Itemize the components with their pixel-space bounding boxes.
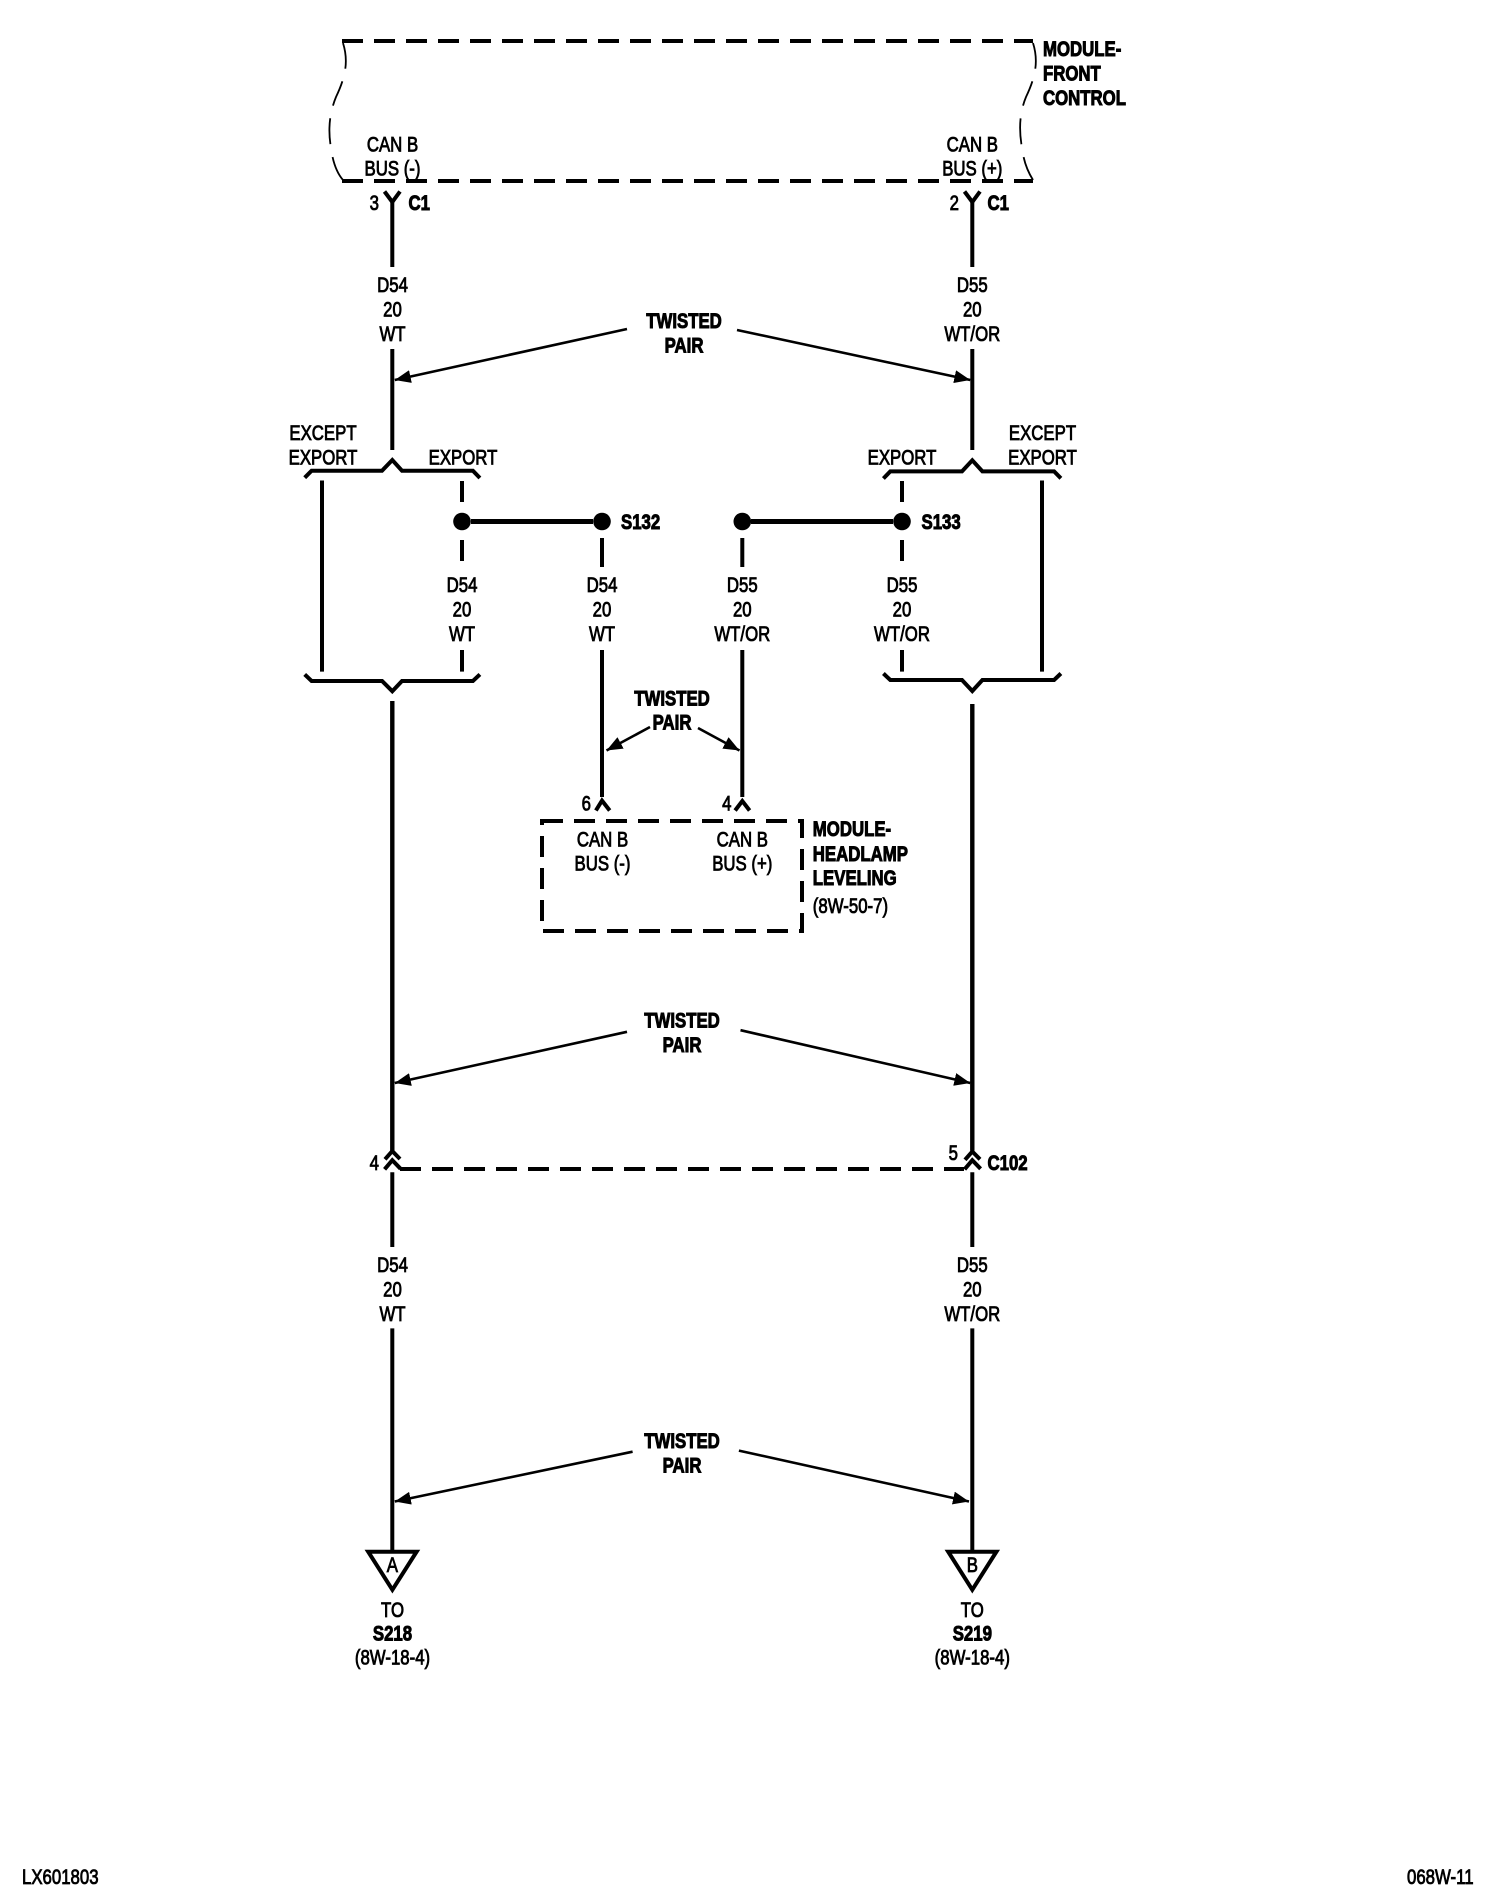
svg-text:WT/OR: WT/OR [874, 623, 930, 646]
svg-text:2: 2 [950, 192, 959, 215]
svg-text:20: 20 [383, 299, 402, 322]
svg-text:20: 20 [893, 599, 912, 622]
wire export branch right (dashed, lower) [900, 650, 904, 672]
svg-text:HEADLAMP: HEADLAMP [813, 843, 908, 866]
wire from S132 down to headlamp pin 6 [600, 650, 604, 797]
arrow to headlamp right wire [698, 728, 740, 751]
svg-text:20: 20 [383, 1279, 402, 1302]
svg-text:C102: C102 [988, 1152, 1028, 1175]
svg-text:MODULE-: MODULE- [1043, 38, 1121, 61]
splice S133 [893, 511, 961, 534]
svg-text:D54: D54 [377, 274, 408, 297]
wire export branch right (dashed, below dot) [900, 540, 904, 561]
svg-text:TO: TO [381, 1599, 404, 1622]
wire except-export branch left (solid) [320, 481, 324, 672]
svg-text:WT/OR: WT/OR [714, 623, 770, 646]
svg-text:TWISTED: TWISTED [646, 310, 722, 333]
svg-text:TO: TO [961, 1599, 984, 1622]
net label CAN B BUS (+) right [942, 134, 1002, 181]
svg-text:PAIR: PAIR [663, 1455, 702, 1478]
wire export branch left (dashed, below dot) [460, 540, 464, 561]
svg-text:20: 20 [963, 299, 982, 322]
svg-text:PAIR: PAIR [665, 335, 704, 358]
arrow to right wire (mid twisted pair) [741, 1030, 971, 1083]
arrow to right wire (bottom twisted pair) [739, 1451, 969, 1502]
svg-text:PAIR: PAIR [653, 712, 692, 735]
wire lower right segments [970, 1172, 974, 1550]
module U1: MODULE-FRONT CONTROL dashed box [329, 41, 1035, 181]
splice node on headlamp branch right [734, 513, 752, 531]
svg-text:D55: D55 [887, 574, 918, 597]
svg-text:4: 4 [370, 1152, 380, 1175]
net label CAN B BUS (+) (headlamp) [712, 829, 772, 876]
svg-text:(8W-50-7): (8W-50-7) [813, 895, 888, 918]
svg-text:WT: WT [379, 323, 405, 346]
connector pin 4 (headlamp) [722, 793, 749, 816]
annotation: TWISTED PAIR (headlamp) [634, 688, 710, 735]
split brace right (up) [883, 460, 1061, 478]
wire main right (brace to C102) [970, 704, 974, 1151]
svg-text:LEVELING: LEVELING [813, 867, 897, 890]
label: TO S219 (8W-18-4) [935, 1599, 1010, 1670]
annotation: TWISTED PAIR (mid) [644, 1010, 720, 1058]
svg-text:CAN B: CAN B [717, 829, 768, 852]
wire label D55 20 WT/OR (right export branch) [874, 574, 930, 646]
svg-text:EXCEPT: EXCEPT [1009, 422, 1077, 445]
label EXCEPT EXPORT (far right) [1008, 422, 1077, 470]
svg-text:A: A [387, 1554, 398, 1577]
wire export branch left (dashed, lower) [460, 650, 464, 672]
svg-text:EXPORT: EXPORT [289, 447, 358, 470]
svg-text:20: 20 [453, 599, 472, 622]
svg-text:D55: D55 [957, 1254, 988, 1277]
svg-text:D54: D54 [377, 1254, 408, 1277]
wire D55 upper right segments [970, 202, 974, 450]
svg-text:D55: D55 [727, 574, 758, 597]
wire label D55 20 WT/OR (upper right) [944, 274, 1000, 346]
wire D54 upper left segments [390, 202, 394, 450]
wire export branch right (dashed, upper) [900, 481, 904, 502]
arrow to left wire (top twisted pair) [395, 329, 627, 380]
svg-text:EXPORT: EXPORT [868, 447, 937, 470]
wire label D54 20 WT (left export branch) [447, 574, 478, 646]
wire splice link S132 [471, 519, 593, 524]
label EXCEPT EXPORT (far left) [289, 422, 358, 470]
connector C102 dashed line [400, 1167, 964, 1171]
svg-text:D55: D55 [957, 274, 988, 297]
connector pin 5 C102 (right chevrons) [949, 1142, 1028, 1175]
svg-text:BUS (-): BUS (-) [575, 853, 631, 876]
svg-text:5: 5 [949, 1142, 958, 1165]
svg-text:4: 4 [722, 793, 732, 816]
wire label D55 20 WT/OR (lower right) [944, 1254, 1000, 1326]
svg-text:TWISTED: TWISTED [644, 1010, 720, 1033]
svg-text:BUS (+): BUS (+) [942, 158, 1002, 181]
svg-text:WT/OR: WT/OR [944, 1303, 1000, 1326]
wire export branch left (dashed, upper) [460, 481, 464, 502]
module U2: MODULE-HEADLAMP LEVELING dashed box [542, 821, 802, 931]
arrow to right wire (top twisted pair) [737, 330, 970, 380]
wire label D54 20 WT (S132 column) [587, 574, 618, 646]
svg-text:TWISTED: TWISTED [634, 688, 710, 711]
svg-text:PAIR: PAIR [663, 1034, 702, 1057]
svg-text:B: B [967, 1554, 978, 1577]
svg-text:BUS (+): BUS (+) [712, 853, 772, 876]
wire splice link S133 [751, 519, 893, 524]
annotation: TWISTED PAIR (bottom) [644, 1430, 720, 1478]
wire label D54 20 WT (lower left) [377, 1254, 408, 1326]
svg-text:S218: S218 [373, 1623, 412, 1646]
label: MODULE-HEADLAMP LEVELING (8W-50-7) [813, 818, 908, 918]
arrow to headlamp left wire [607, 727, 651, 751]
svg-text:BUS (-): BUS (-) [365, 158, 421, 181]
svg-text:MODULE-: MODULE- [813, 818, 891, 841]
connector pin 2 C1 (right) [950, 192, 1010, 216]
svg-text:WT/OR: WT/OR [944, 323, 1000, 346]
svg-text:WT: WT [589, 623, 615, 646]
svg-text:TWISTED: TWISTED [644, 1430, 720, 1453]
svg-text:EXCEPT: EXCEPT [289, 422, 357, 445]
wire lower left segments [390, 1172, 394, 1550]
svg-text:6: 6 [582, 793, 591, 816]
wire main left (brace to C102) [390, 701, 394, 1151]
annotation: TWISTED PAIR (top) [646, 310, 722, 358]
wire from splice down (upper right headlamp branch) [740, 538, 744, 567]
svg-text:068W-11: 068W-11 [1407, 1866, 1474, 1889]
wire from S132 down (upper) [600, 538, 604, 567]
off-page connector B [948, 1552, 996, 1590]
svg-text:CAN B: CAN B [577, 829, 628, 852]
svg-text:D54: D54 [447, 574, 478, 597]
wire label D55 20 WT/OR (headlamp branch) [714, 574, 770, 646]
svg-text:D54: D54 [587, 574, 618, 597]
net label CAN B BUS (-) (headlamp) [575, 829, 631, 876]
svg-text:(8W-18-4): (8W-18-4) [355, 1647, 430, 1670]
svg-text:S133: S133 [922, 511, 961, 534]
wire label D54 20 WT (upper left) [377, 274, 408, 346]
svg-text:FRONT: FRONT [1043, 63, 1101, 86]
svg-text:C1: C1 [988, 192, 1010, 215]
svg-text:20: 20 [593, 599, 612, 622]
connector pin 4 C102 (left chevrons) [370, 1151, 401, 1175]
connector pin 3 C1 (left) [370, 192, 431, 216]
svg-text:EXPORT: EXPORT [1008, 447, 1077, 470]
arrow to left wire (mid twisted pair) [395, 1032, 627, 1083]
label: TO S218 (8W-18-4) [355, 1599, 430, 1670]
arrow to left wire (bottom twisted pair) [395, 1452, 633, 1502]
svg-text:LX601803: LX601803 [22, 1866, 99, 1889]
svg-text:CAN B: CAN B [367, 134, 418, 157]
off-page connector A [368, 1552, 416, 1590]
svg-text:WT: WT [379, 1303, 405, 1326]
svg-text:C1: C1 [409, 192, 431, 215]
svg-text:WT: WT [449, 623, 475, 646]
splice node on left export branch [453, 513, 471, 531]
svg-text:CAN B: CAN B [947, 134, 998, 157]
svg-text:(8W-18-4): (8W-18-4) [935, 1647, 1010, 1670]
svg-text:3: 3 [370, 192, 379, 215]
svg-text:20: 20 [963, 1279, 982, 1302]
rejoin brace right (down) [883, 674, 1061, 692]
wire except-export branch right (solid) [1040, 481, 1044, 672]
svg-text:S132: S132 [621, 511, 660, 534]
rejoin brace left (down) [305, 674, 480, 691]
splice S132 [593, 511, 660, 534]
svg-text:CONTROL: CONTROL [1043, 87, 1126, 110]
label: MODULE-FRONT CONTROL [1043, 38, 1126, 110]
wire down to headlamp pin 4 [740, 650, 744, 797]
svg-text:EXPORT: EXPORT [429, 447, 498, 470]
svg-text:20: 20 [733, 599, 752, 622]
svg-text:S219: S219 [953, 1623, 992, 1646]
net label CAN B BUS (-) left [365, 134, 421, 181]
connector pin 6 (headlamp) [582, 793, 610, 816]
split brace left (up) [305, 460, 480, 478]
